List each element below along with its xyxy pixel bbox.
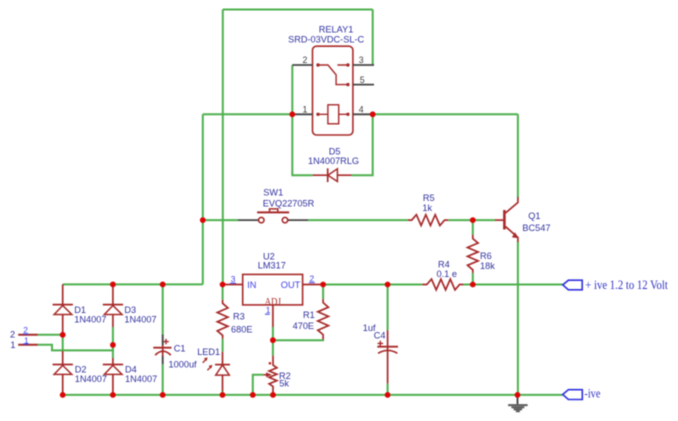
relay RELAY1 body (313, 46, 353, 135)
svg-text:2: 2 (310, 273, 315, 283)
node SW1 tap (200, 217, 206, 223)
svg-text:1N4007: 1N4007 (75, 374, 107, 384)
LED LED1 (222, 352, 224, 365)
svg-text:C4: C4 (374, 331, 386, 341)
wire R6 top (472, 220, 474, 235)
svg-text:680E: 680E (231, 324, 252, 334)
wire R5 to Q1 base (448, 219, 495, 221)
svg-text:C1: C1 (174, 344, 186, 354)
svg-text:R5: R5 (423, 193, 435, 203)
svg-text:RELAY1: RELAY1 (319, 24, 354, 34)
svg-text:Q1: Q1 (528, 211, 540, 221)
wire C4 top (387, 285, 389, 331)
U2 pin numbers (231, 273, 315, 315)
svg-text:SRD-03VDC-SL-C: SRD-03VDC-SL-C (288, 34, 364, 44)
svg-text:1N4007: 1N4007 (125, 374, 157, 384)
node C1 top rail (160, 282, 166, 288)
input terminal pin 1 (18, 344, 38, 346)
relay pin 5 stub (353, 84, 374, 86)
svg-text:5k: 5k (279, 378, 289, 388)
relay pin 2 stub (292, 64, 312, 66)
svg-text:1k: 1k (422, 203, 432, 213)
input terminal pin 2 (18, 334, 38, 336)
wire C1 top (162, 284, 164, 334)
node rail C4 (385, 392, 391, 398)
svg-text:-ive: -ive (584, 386, 600, 400)
svg-text:18k: 18k (480, 261, 495, 271)
svg-text:R3: R3 (233, 312, 245, 322)
svg-text:470E: 470E (293, 321, 314, 331)
svg-text:1: 1 (10, 340, 15, 350)
R2 wiper arrow (263, 374, 267, 376)
wire IN node down to R3 (222, 285, 224, 300)
svg-text:1N4007: 1N4007 (74, 315, 106, 325)
svg-text:LED1: LED1 (197, 347, 220, 357)
wire bottom rail (63, 394, 563, 396)
svg-text:2: 2 (303, 55, 308, 65)
wire D3 bottom green (112, 327, 114, 345)
diode D1 (62, 284, 64, 305)
node rail ground (515, 392, 521, 398)
svg-text:BC547: BC547 (522, 223, 550, 233)
switch SW1 (238, 219, 259, 221)
wire D5 loop left (292, 114, 312, 175)
svg-text:D1: D1 (74, 305, 86, 315)
wire R3 to LED1 (222, 339, 224, 352)
relay contact dots (316, 63, 349, 86)
wire R1 bottom to ADJ node (273, 339, 323, 340)
wire SW1 row left (203, 219, 238, 221)
relay pin numbers (303, 55, 365, 114)
wire SW1 to R5 (308, 219, 408, 221)
wire input terminal 1 (38, 345, 113, 351)
svg-text:0.1 e: 0.1 e (437, 269, 457, 279)
wire OUT row to R4 (323, 284, 422, 286)
node D3 top rail (110, 282, 116, 288)
resistor R6 (468, 235, 479, 273)
node relay pin1 (289, 111, 295, 117)
resistor R3 (217, 300, 228, 339)
wire right vertical to relay pin3 (372, 10, 374, 66)
node R4/R6 (470, 282, 476, 288)
svg-text:3: 3 (231, 274, 236, 284)
node rail R2 wiper (250, 392, 256, 398)
svg-text:3: 3 (359, 55, 364, 65)
node Q1 base / R6 (470, 217, 476, 223)
wire left vertical x=222.8 top loop down to LM317 IN node (222, 10, 224, 285)
wire relay pin2 drop to pin1 node (291, 65, 293, 114)
wire LED1 to bottom rail (222, 391, 224, 395)
svg-text:LM317: LM317 (258, 261, 286, 271)
diode D5 (313, 174, 352, 176)
relay pin 3 stub (353, 64, 374, 66)
U2 OUT pin stub (303, 284, 324, 286)
svg-text:SW1: SW1 (263, 188, 283, 198)
wire relay pin4 to right column (373, 113, 518, 115)
node rail C1 (160, 392, 166, 398)
svg-text:1: 1 (303, 104, 308, 114)
svg-text:EVQ22705R: EVQ22705R (263, 198, 315, 208)
diode D4 (112, 358, 114, 365)
wire ADJ node down to R2 (272, 340, 274, 355)
svg-text:1000uf: 1000uf (169, 360, 198, 370)
wire Q1 emitter down to bottom rail (517, 242, 519, 395)
svg-text:OUT: OUT (281, 280, 301, 290)
wire D4 top green (112, 345, 114, 358)
node ADJ junction (270, 337, 276, 343)
svg-text:D3: D3 (124, 305, 136, 315)
wire D2 top green (62, 335, 64, 351)
potentiometer R2 (269, 356, 277, 395)
wire ADJ stub to node (272, 327, 274, 340)
relay pin 1 stub (292, 113, 312, 115)
svg-text:1N4007: 1N4007 (124, 315, 156, 325)
wire pin1 node to left column (203, 113, 292, 115)
node LM317 OUT (320, 282, 326, 288)
diode D3 (112, 284, 114, 305)
svg-text:IN: IN (247, 280, 256, 290)
svg-text:R1: R1 (303, 310, 315, 320)
node rail R2 (270, 392, 276, 398)
wire OUT node down to R1 (322, 285, 324, 300)
node AC input 1 (110, 342, 116, 348)
diode D2 (62, 351, 64, 365)
node relay pin4 (370, 111, 376, 117)
wire C4 bottom (387, 383, 389, 395)
resistor R1 (318, 299, 329, 339)
U2 IN pin stub (223, 284, 243, 286)
wire left column x=202.8 down to bridge rail (202, 114, 204, 284)
node rail D2 (60, 392, 66, 398)
ground (517, 395, 519, 404)
svg-text:2: 2 (10, 330, 15, 340)
svg-text:R4: R4 (438, 259, 450, 269)
wire right column down to Q1 collector (517, 114, 519, 197)
wire input terminal 2 (38, 334, 63, 336)
relay pin 4 stub (353, 113, 374, 115)
svg-text:R6: R6 (480, 251, 492, 261)
svg-text:1: 1 (266, 305, 271, 315)
relay coil leads (318, 113, 348, 115)
LED1 light arrows (203, 360, 206, 363)
output tag +ive (563, 280, 582, 290)
transistor Q1 (495, 219, 503, 221)
U2 ADJ pin stub (272, 305, 274, 327)
wire D5 loop right (352, 114, 373, 175)
wire bridge + rail (63, 283, 203, 285)
node C4 top (385, 282, 391, 288)
capacitor C4 (387, 330, 389, 383)
node LM317 IN (220, 282, 226, 288)
node rail D4 (110, 392, 116, 398)
relay contact arm (318, 65, 348, 85)
node AC input 2 (60, 332, 66, 338)
wire top loop horizontal (223, 9, 373, 11)
wire R2 wiper to rail (253, 375, 263, 395)
svg-text:+ ive 1.2 to 12 Volt: + ive 1.2 to 12 Volt (585, 278, 668, 292)
relay coil (328, 105, 339, 124)
svg-text:5: 5 (360, 75, 365, 85)
wire R4 to +ive tag (463, 284, 562, 286)
node rail LED1 (220, 392, 226, 398)
wire R6 bottom (472, 273, 474, 285)
resistor R4 (422, 279, 463, 290)
svg-text:4: 4 (359, 104, 364, 114)
output tag -ive (563, 390, 583, 400)
resistor R5 (408, 215, 448, 226)
wire C1 bottom (162, 364, 164, 395)
capacitor C1 (162, 335, 164, 346)
IC U2 LM317 body (243, 274, 303, 305)
R2 top marker (269, 362, 272, 365)
svg-text:1N4007RLG: 1N4007RLG (308, 156, 359, 166)
